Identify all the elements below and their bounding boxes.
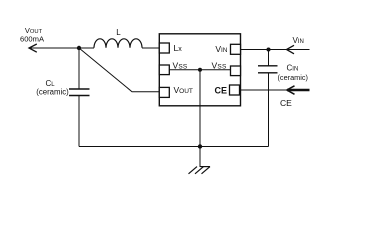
wire: VSS down to ground rail [199,70,201,147]
ground [189,147,211,174]
pin CE [214,85,239,96]
svg-text:L: L [116,28,121,37]
svg-text:600mA: 600mA [20,34,45,43]
VOUT output arrow [20,26,79,52]
wire: node to inductor [79,47,94,49]
pin VSS (right) [212,60,241,75]
wire: inductor to Lx pin [142,47,159,49]
svg-text:CE: CE [280,98,292,108]
node: VIN junction [267,48,271,52]
pin VSS (left) [159,60,188,74]
pin VIN [215,44,240,54]
capacitor CL [36,48,89,147]
CE input arrow [240,86,310,108]
wire: node diagonal to VOUT pin [79,48,159,92]
pin VOUT [159,85,193,97]
pin Lx [159,43,182,53]
VIN input arrow [241,36,310,54]
IC body [159,34,240,106]
svg-text:(ceramic): (ceramic) [36,87,69,96]
capacitor CIN [258,50,308,147]
svg-text:(ceramic): (ceramic) [278,73,308,82]
wire: internal VSS bus [169,69,230,71]
node: output node [77,46,81,50]
inductor L [94,28,142,48]
node: VSS junction [198,68,202,72]
svg-text:CE: CE [214,86,227,96]
wire: ground rail [79,146,269,148]
node: ground rail junction [198,144,202,148]
